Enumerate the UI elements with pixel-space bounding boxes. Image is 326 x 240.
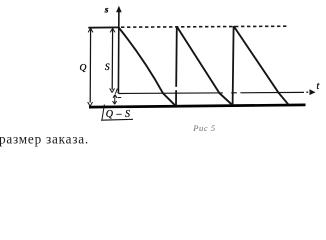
tooth 2 vertical erosion (scan artifact) (175, 87, 178, 90)
sawtooth 3 hypotenuse (234, 26, 289, 105)
Q dimension arrow (88, 28, 93, 106)
Q-S label leader slash (102, 105, 104, 120)
top level line (88, 26, 119, 28)
sawtooth 2 vertical edge (175, 27, 178, 106)
y-axis (116, 6, 122, 94)
small dash right of axis (118, 97, 122, 99)
svg-text:Рис 5: Рис 5 (192, 123, 215, 133)
svg-text:размер заказа.: размер заказа. (0, 132, 89, 147)
sawtooth 3 vertical edge (233, 26, 234, 105)
sawtooth 2 hypotenuse (177, 27, 233, 106)
svg-text:t: t (317, 81, 320, 92)
svg-text:Q: Q (80, 64, 87, 74)
bottom shortage level line (thick) (89, 105, 306, 107)
svg-text:Q – S: Q – S (106, 109, 131, 120)
small Q-S depth arrow (113, 95, 117, 105)
svg-text:S: S (105, 63, 110, 73)
sawtooth 1 hypotenuse (119, 28, 175, 106)
axis erosion gap (scan artifact) (223, 92, 231, 95)
x-axis (time axis) (118, 89, 315, 95)
Q-S label underline (101, 118, 133, 121)
small tick left of axis foot (115, 89, 117, 94)
S dimension arrow (110, 28, 115, 92)
dashed max level line (121, 26, 289, 27)
svg-text:s: s (104, 5, 109, 15)
